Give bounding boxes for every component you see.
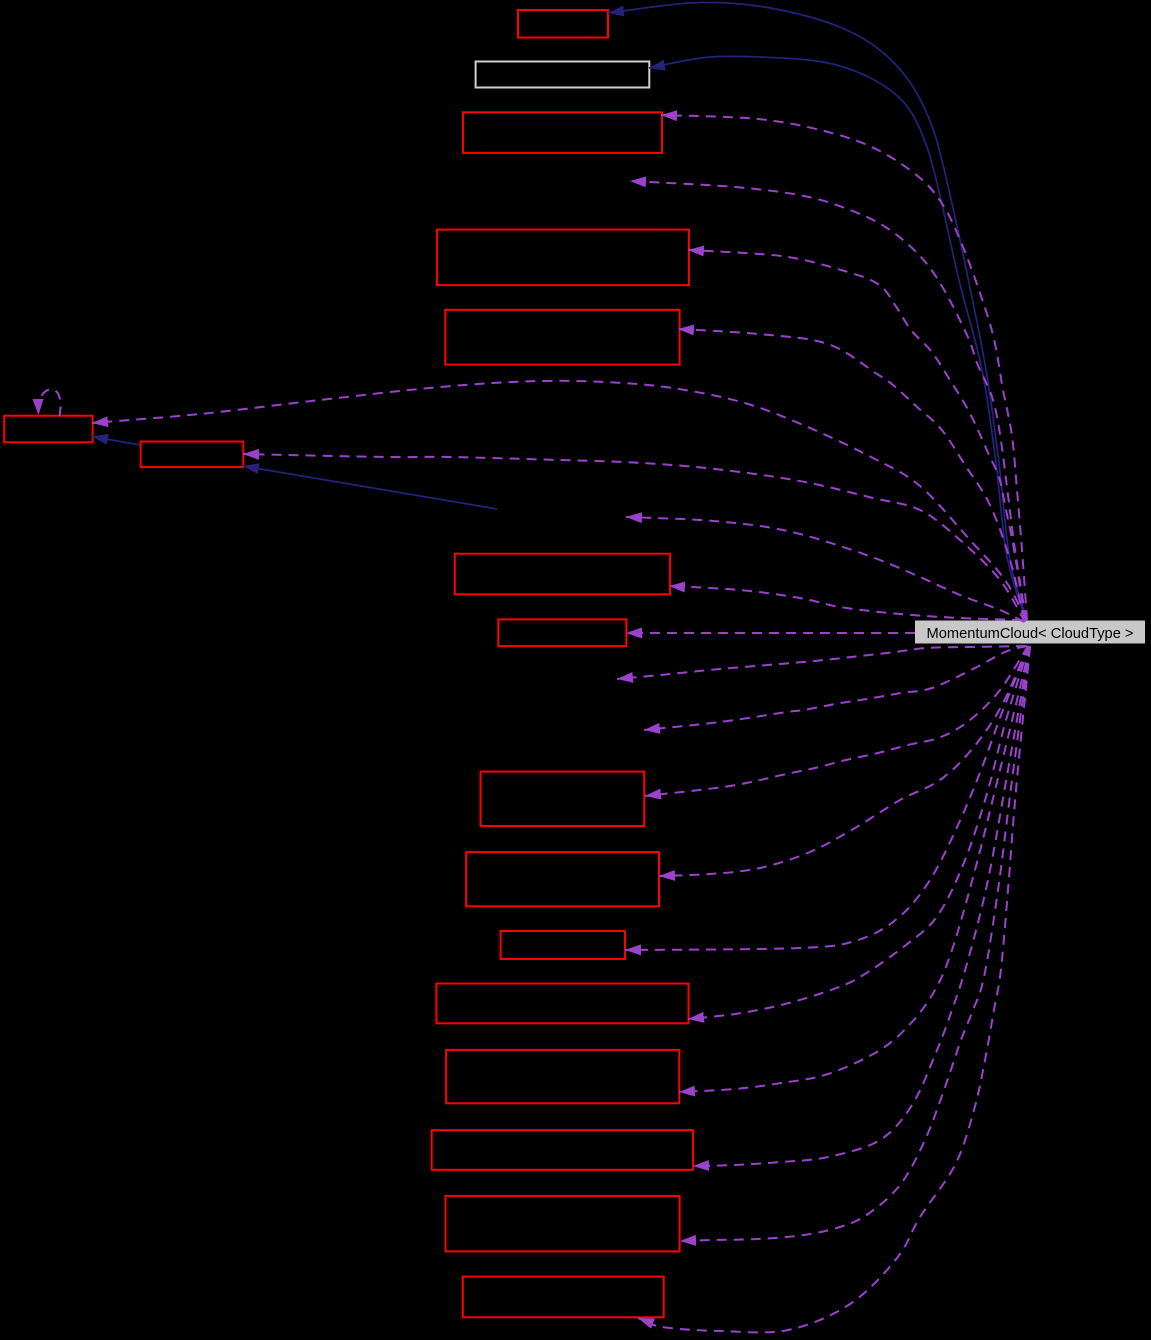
usage edge to box9 (659, 646, 1028, 876)
node MomentumCloud< CloudType > (current class, grey filled) (915, 621, 1145, 644)
usage edge to box5 (678, 329, 1024, 620)
usage edge to box12 (679, 646, 1030, 1092)
node box14 (446, 1196, 680, 1252)
usage edge to box10 (625, 646, 1029, 950)
blue inheritance edge boxB to boxA (92, 437, 140, 446)
node boxA (4, 416, 92, 443)
usage edge to box7 (626, 632, 915, 634)
node box8 (481, 772, 645, 826)
node box13 (432, 1130, 693, 1170)
usage edge to box15 (638, 647, 1030, 1332)
usage edge to box3 (661, 115, 1027, 620)
usage edge to box11 (688, 646, 1029, 1019)
usage edge to box13 (693, 646, 1030, 1166)
usage edge to invisible node 1 (630, 181, 1026, 620)
usage edge to box8 (645, 646, 1028, 796)
blue inheritance edge invisible node 2 to boxB (243, 466, 497, 509)
usage edge to box6 (669, 586, 1022, 620)
usage edge to invisible node 4 (617, 646, 1026, 679)
blue inheritance edge to box2 (649, 56, 1026, 620)
node box7 (498, 619, 626, 646)
node box1 (518, 10, 608, 38)
node box11 (436, 984, 688, 1024)
node box9 (466, 852, 659, 906)
usage edge to boxA (long) (92, 381, 1026, 620)
node box6 (455, 554, 670, 595)
usage edge to boxB (243, 454, 1025, 622)
svg-text:MomentumCloud< CloudType >: MomentumCloud< CloudType > (927, 625, 1134, 642)
node box10 (501, 931, 625, 959)
node box5 (445, 310, 679, 365)
node box2 (undocumented, grey) (476, 62, 650, 88)
usage edge to invisible node 3 (626, 517, 1024, 622)
node box15 (463, 1277, 664, 1318)
node boxB (141, 442, 244, 468)
node box4 (437, 230, 689, 286)
blue inheritance edge to box1 (608, 2, 1027, 620)
usage self-loop edge on boxA (38, 389, 60, 416)
node box12 (446, 1050, 679, 1103)
usage edge to box14 (680, 646, 1030, 1241)
usage edge to invisible node 5 (644, 646, 1027, 730)
usage edge to box4 (688, 250, 1025, 620)
node box3 (463, 112, 662, 153)
